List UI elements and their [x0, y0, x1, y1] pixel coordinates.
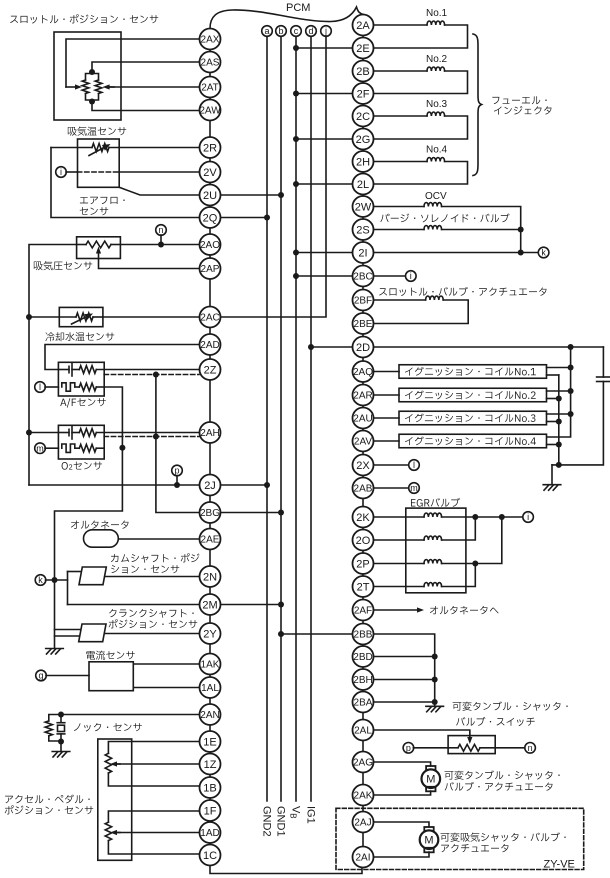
intake air temp sensor box [78, 139, 120, 187]
pin 2S [353, 219, 374, 240]
svg-text:2K: 2K [356, 512, 370, 524]
node p switch [403, 743, 414, 754]
junction rail B No.2 [556, 396, 562, 402]
junction knock bottom [58, 739, 64, 745]
wire ignition coil No.4 to rail B [547, 444, 559, 446]
pin 2BH [353, 669, 374, 690]
svg-text:2H: 2H [356, 156, 370, 168]
svg-text:2AK: 2AK [354, 791, 373, 802]
O2 sensor cell resistor to pin 2AH [72, 429, 200, 437]
svg-text:2Z: 2Z [204, 364, 217, 376]
junction throttle pot top node [89, 69, 95, 75]
junction 2J on bus GND2 [264, 482, 270, 488]
bus VB vertical wire (net c) [295, 36, 297, 801]
svg-text:2AL: 2AL [354, 726, 372, 737]
switch ground rail from pin 2BB [374, 634, 435, 706]
svg-text:p: p [406, 743, 411, 753]
node d [306, 26, 317, 37]
coolant temp sensor box [59, 307, 103, 326]
wire pin 2BC to node i [374, 275, 406, 277]
svg-text:No.4: No.4 [426, 145, 448, 156]
pin 2Z [200, 359, 221, 380]
svg-text:i: i [60, 167, 62, 177]
camshaft sensor pickup [79, 567, 106, 585]
tumble shutter switch box [448, 736, 495, 754]
junction O2 on left rail [26, 430, 32, 436]
junction k on heater return rail [52, 577, 58, 583]
pin 2N [200, 566, 221, 587]
pin 2BB [353, 624, 374, 645]
pin 2AQ [353, 361, 374, 382]
node m right [409, 483, 420, 494]
pin 2M [200, 594, 221, 615]
pin 2AL [353, 720, 374, 741]
wire switch to node n [495, 747, 525, 749]
svg-text:2I: 2I [358, 247, 367, 259]
pin 2B [353, 61, 374, 82]
label ignition coil No.4 [405, 436, 536, 445]
label throttle valve actuator [379, 287, 546, 296]
O2 sensor box [58, 425, 104, 459]
node g current [36, 670, 47, 681]
EGR coil phase 3 from pin 2P [374, 517, 502, 564]
svg-text:1F: 1F [204, 805, 217, 817]
label variable tumble shutter valve actuator [445, 770, 560, 779]
wire k rail to crank sensor and ground [55, 580, 82, 649]
svg-text:n: n [528, 743, 533, 753]
wire bus VB to pin 2I [296, 252, 353, 254]
junction coolant on left rail [26, 314, 32, 320]
wire pin 2AS to throttle pot top node [92, 62, 200, 72]
node j [321, 26, 332, 37]
wire ignition coil No.2 to rail B [547, 398, 559, 400]
thermistor coolant temp [59, 313, 103, 321]
wire crank sensor to pin 2Y [104, 633, 199, 635]
wire ignition coil No.3 to rail A [547, 413, 571, 415]
svg-text:2R: 2R [203, 142, 217, 154]
wire bus VB to injector return pin [296, 183, 353, 185]
tumble switch resistor [448, 744, 495, 751]
junction 2D on bus IG1 [308, 344, 314, 350]
svg-text:m: m [410, 483, 418, 493]
throttle valve actuator coil pins 2BF 2BE [374, 296, 469, 324]
wire pin 2AB to node m [374, 487, 410, 489]
junction 2BH rail [432, 677, 438, 683]
svg-text:2BB: 2BB [354, 630, 373, 641]
svg-text:2L: 2L [357, 179, 369, 191]
ignition coil No.4 box [399, 434, 547, 448]
junction 2Q on bus GND2 [264, 215, 270, 221]
junction knock top [58, 712, 64, 718]
pin 2AN [200, 704, 221, 725]
node l right [409, 460, 420, 471]
fuel injector group brace [473, 34, 482, 176]
svg-text:M: M [426, 774, 435, 786]
svg-text:PCM: PCM [286, 2, 310, 14]
pin 2T [353, 576, 374, 597]
svg-text:c: c [294, 26, 299, 36]
junction rail A No.3 [568, 411, 574, 417]
label accelerator pedal position sensor [5, 795, 90, 804]
node k right [538, 247, 549, 258]
svg-text:2N: 2N [203, 571, 217, 583]
fuel injector coil No.4 [374, 158, 468, 185]
svg-text:2BE: 2BE [354, 319, 373, 330]
svg-text:2A: 2A [356, 20, 370, 32]
wire node n stem [160, 235, 162, 245]
node i EGR [523, 512, 534, 523]
bus GND2 vertical wire (net a) [266, 36, 268, 801]
pin 2I [353, 242, 374, 263]
pin 2P [353, 553, 374, 574]
node k cam [35, 575, 46, 586]
junction n on 2AO wire [158, 242, 164, 248]
pressure sensor arrow [96, 247, 101, 258]
junction rail B No.3 [556, 419, 562, 425]
svg-text:2AC: 2AC [200, 313, 219, 324]
svg-text:2AD: 2AD [200, 340, 219, 351]
wire sensor box to pin 2V [119, 171, 199, 173]
pin 2BG [200, 502, 221, 523]
wire knock sensor to pin 2AN [61, 714, 200, 716]
svg-text:i: i [410, 271, 412, 281]
pin 2BA [353, 692, 374, 713]
pin 2J [200, 475, 221, 496]
svg-text:B: B [288, 813, 297, 818]
pin 2AX [200, 29, 221, 50]
svg-text:2BC: 2BC [353, 272, 372, 283]
pin 2AI [353, 847, 374, 868]
svg-text:2E: 2E [356, 43, 369, 55]
wire bus VB to injector return pin [296, 93, 353, 95]
wire alternator to pin 2AE [118, 538, 199, 540]
wire node p stem [176, 476, 178, 486]
svg-text:2Q: 2Q [203, 212, 218, 224]
node n pressure [156, 225, 167, 236]
junction 2BC on bus VB [293, 273, 299, 279]
pin 2X [353, 455, 374, 476]
wire pressure sensor to pin 2AO [120, 244, 199, 246]
wire pin 2BA to rail [374, 701, 435, 703]
junction O2 dashed riser [153, 434, 159, 440]
svg-text:d: d [308, 26, 313, 36]
wire pin 2X to node l [374, 464, 410, 466]
svg-text:1Z: 1Z [204, 759, 217, 771]
label current sensor [86, 651, 135, 660]
pin 1AD [200, 822, 221, 843]
node c [291, 26, 302, 37]
ground tumble shutter switch [426, 706, 444, 712]
junction EGR c [472, 561, 478, 567]
wire pin to ignition coil No.2 [374, 394, 400, 396]
EGR coil phase 2 from pin 2O [374, 517, 476, 540]
A/F sensor cell capacitor [58, 369, 69, 371]
junction rail A No.2 [568, 388, 574, 394]
pin 1AK [200, 654, 221, 675]
pin 2F [353, 83, 374, 104]
wire pressure sensor bottom to pin 2AP [99, 259, 200, 269]
O2 heater element [62, 444, 104, 452]
node i airflow [56, 167, 67, 178]
wire pin to ignition coil No.1 [374, 371, 400, 373]
pin 2AB [353, 478, 374, 499]
wire node l to A/F heater [45, 386, 58, 388]
junction injector on bus VB [293, 91, 299, 97]
wire pin 2U to bus GND1 [221, 194, 282, 196]
junction injector on bus VB [293, 45, 299, 51]
wire airflow box corner to pin 2U [119, 187, 199, 195]
pin 2G [353, 129, 374, 150]
svg-text:2AW: 2AW [199, 106, 221, 117]
ground ignition coils [551, 465, 553, 485]
pin 2BD [353, 646, 374, 667]
pin 2K [353, 507, 374, 528]
svg-text:m: m [36, 443, 44, 453]
label camshaft position sensor [111, 553, 200, 563]
svg-text:2BH: 2BH [353, 675, 372, 686]
pressure sensor resistor [77, 241, 121, 248]
svg-text:b: b [278, 26, 283, 36]
pin 2AR [353, 385, 374, 406]
pin 2A [353, 15, 374, 36]
pedal pot 2 resistor with leads to pins 1F and 1C [105, 811, 199, 854]
wire pin 1C bottom to pin 2AI [210, 866, 362, 874]
junction on 2I wire [518, 250, 524, 256]
svg-text:2P: 2P [356, 558, 369, 570]
wire node i to sensor box [66, 171, 78, 173]
motor M2 variable intake shutter actuator [420, 827, 439, 852]
pin 2BF [353, 290, 374, 311]
svg-text:2BA: 2BA [354, 698, 373, 709]
svg-text:2AJ: 2AJ [354, 818, 371, 829]
right pin header chain wire [362, 25, 364, 857]
svg-text:OCV: OCV [425, 191, 447, 202]
svg-text:1AD: 1AD [200, 828, 219, 839]
wire heater return riser to k junction [55, 448, 123, 580]
svg-text:No.2: No.2 [426, 54, 448, 65]
wire pin 2Q to bus GND2 [221, 217, 268, 219]
junction 2D rail A [568, 344, 574, 350]
EGR coil phase 1 from pin 2K to node i [374, 513, 524, 517]
label throttle position sensor [10, 14, 158, 23]
pin 1C [200, 845, 221, 866]
pin 2AO [200, 234, 221, 255]
wire pin to ignition coil No.3 [374, 417, 400, 419]
node a [262, 26, 273, 37]
pin 2L [353, 174, 374, 195]
pedal pot 1 wiper arrow from pin 1Z [114, 763, 200, 765]
svg-text:1B: 1B [203, 782, 216, 794]
svg-text:No.1: No.1 [426, 8, 448, 19]
label crankshaft position sensor [109, 609, 194, 618]
svg-text:2M: 2M [202, 599, 217, 611]
wire pin 2BG to bus GND1 [221, 512, 282, 514]
svg-text:2F: 2F [357, 88, 370, 100]
svg-text:2AX: 2AX [201, 35, 220, 46]
svg-text:IG1: IG1 [304, 806, 316, 824]
pin 2BE [353, 313, 374, 334]
junction rail A No.1 [568, 365, 574, 371]
junction 2BA rail [432, 699, 438, 705]
svg-text:ZY-VE: ZY-VE [544, 859, 575, 871]
wire pin 2AJ to intake shutter motor [374, 822, 430, 827]
pin 1B [200, 777, 221, 798]
pin 2D [353, 337, 374, 358]
svg-text:GND1: GND1 [274, 806, 286, 837]
wire coolant sensor to pin 2AC [103, 316, 200, 318]
left pin header chain wire [209, 39, 211, 855]
dashed wire inside airflow sensor to pin 2V [78, 171, 120, 173]
EGR valve box [406, 508, 466, 593]
svg-text:2AB: 2AB [354, 484, 373, 495]
junction rail B ground [556, 462, 562, 468]
svg-text:1C: 1C [203, 850, 217, 862]
label airflow sensor [80, 197, 125, 204]
pin 1F [200, 800, 221, 821]
throttle position sensor box [54, 32, 121, 120]
ignition coil No.2 box [399, 388, 547, 402]
svg-text:2AT: 2AT [201, 83, 219, 94]
wire node m to O2 heater [45, 447, 58, 449]
intake pressure sensor box [77, 237, 121, 259]
wire pin 2BH to rail [374, 679, 435, 681]
wire left rail to pin 2J [29, 484, 200, 486]
pin 2AU [353, 408, 374, 429]
svg-text:2B: 2B [356, 66, 369, 78]
junction 2I on bus VB [293, 250, 299, 256]
current sensor box [89, 662, 133, 691]
label fuel injector [492, 96, 546, 104]
alternator body [84, 530, 119, 547]
wire node k to cam sensor and pin 2M [46, 572, 200, 605]
pin 2AH [200, 422, 221, 443]
pin 2AE [200, 529, 221, 550]
pin 2AG [353, 752, 374, 773]
pin 2W [353, 196, 374, 217]
node m O2 heater [35, 443, 46, 454]
svg-text:No.3: No.3 [426, 99, 448, 110]
label EGR valve [411, 498, 460, 507]
pin 2AD [200, 334, 221, 355]
node l A/F heater [35, 382, 46, 393]
wire purge return to pin 2I wire [520, 230, 522, 253]
svg-text:i: i [527, 512, 529, 522]
pin 1AL [200, 677, 221, 698]
junction 2BG on bus GND1 [278, 510, 284, 516]
label variable intake shutter valve actuator [441, 832, 566, 841]
wire ignition coil No.3 to rail B [547, 421, 559, 423]
junction p on 2J wire [174, 482, 180, 488]
label to alternator [430, 606, 499, 614]
wire current sensor to pin 1AK [133, 663, 199, 665]
label intake pressure sensor [34, 261, 92, 270]
pedal pot 2 wiper arrow from pin 1AD [114, 832, 200, 834]
pin 2U [200, 185, 221, 206]
node p 2J [172, 465, 183, 476]
svg-text:l: l [413, 460, 415, 470]
wire bus VB to pin 2BC [296, 275, 353, 277]
wire node p to switch [413, 747, 448, 749]
thermistor RT intake air temp [92, 144, 109, 152]
wire pin 2AW to throttle pot bottom node [92, 102, 200, 111]
label ignition coil No.3 [405, 413, 535, 422]
ignition coil No.3 box [399, 411, 547, 425]
svg-text:a: a [264, 26, 269, 36]
PCM boundary wave from pin 2AX to pin 2A [210, 7, 364, 29]
pin 2O [353, 530, 374, 551]
svg-text:j: j [324, 26, 327, 36]
pin 2H [353, 151, 374, 172]
wire bus VB to injector return pin [296, 47, 353, 49]
label VB [288, 806, 301, 819]
pin 2AV [353, 431, 374, 452]
svg-text:2S: 2S [356, 224, 369, 236]
svg-text:2G: 2G [356, 134, 371, 146]
label ignition coil No.1 [405, 367, 536, 376]
bus IG1 vertical wire (net d) [310, 36, 312, 801]
label intake air temp sensor [68, 127, 126, 136]
wire pin 2AX to throttle pot arrow [66, 39, 200, 87]
junction 2BB on bus GND1 [278, 631, 284, 637]
wire ignition coil No.2 to rail A [547, 390, 571, 392]
junction rail B No.4 [556, 442, 562, 448]
svg-text:2AS: 2AS [201, 58, 220, 69]
svg-text:2AN: 2AN [200, 710, 219, 721]
svg-text:2D: 2D [356, 342, 370, 354]
svg-text:2W: 2W [355, 201, 372, 213]
wire bus GND1 to pin 2BB [281, 633, 353, 635]
ground crank sensor [46, 649, 64, 655]
junction OCV purge join [518, 227, 524, 233]
pedal pot 1 resistor with leads to pins 1E and 1B [105, 742, 199, 787]
ZY-VE dashed boundary box [336, 808, 584, 869]
svg-text:2AH: 2AH [200, 428, 219, 439]
dashed wire A/F sensor to pin 2Z [104, 374, 199, 376]
wire pin 2AD hook to A/F sensor [45, 345, 200, 370]
svg-text:2AF: 2AF [354, 606, 372, 617]
wire ignition coil No.1 to rail B [547, 374, 559, 376]
svg-text:2U: 2U [203, 190, 217, 202]
pin 2V [200, 162, 221, 183]
svg-text:2AQ: 2AQ [353, 367, 373, 378]
svg-text:2AE: 2AE [201, 535, 220, 546]
svg-text:1E: 1E [203, 736, 216, 748]
node i throttle actuator [406, 271, 417, 282]
pin 2Y [200, 623, 221, 644]
svg-text:2AR: 2AR [353, 391, 372, 402]
accelerator pedal sensor box [98, 739, 132, 860]
pin 2AJ [353, 812, 374, 833]
ignition coil No.1 box [399, 365, 547, 379]
svg-text:n: n [158, 225, 163, 235]
svg-text:2T: 2T [357, 581, 370, 593]
svg-text:k: k [541, 248, 546, 258]
wire pressure sensor to left rail [29, 245, 77, 486]
OCV oil control valve coil from pin 2W [374, 203, 521, 230]
svg-text:2AU: 2AU [353, 414, 372, 425]
pin 2C [353, 106, 374, 127]
svg-text:2C: 2C [356, 111, 370, 123]
junction 2M on bus GND1 [278, 602, 284, 608]
svg-text:2V: 2V [203, 167, 217, 179]
wire coolant sensor to left rail junction [29, 316, 59, 318]
crankshaft sensor pickup [79, 624, 106, 642]
wire net j from node j to pin 2AC [221, 36, 327, 317]
A/F sensor cell resistor to pin 2Z [72, 366, 200, 374]
pin 2AK [353, 785, 374, 806]
node n switch [525, 743, 536, 754]
wire cam sensor to pin 2N [105, 576, 200, 578]
